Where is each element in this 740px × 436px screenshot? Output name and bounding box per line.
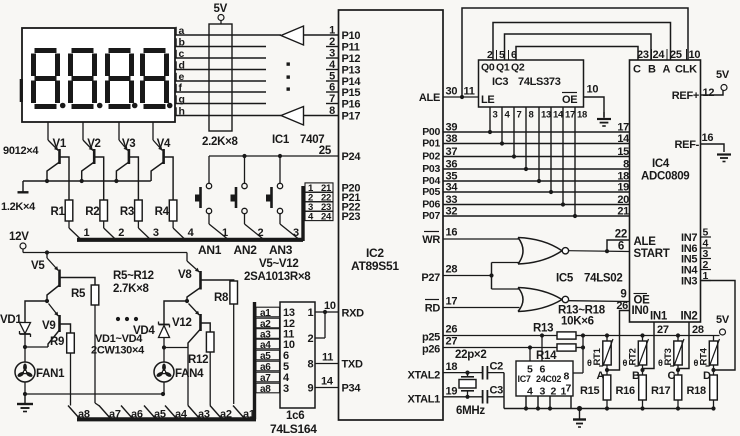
- svg-text:FAN4: FAN4: [175, 368, 204, 380]
- bus bar (thick) fan harness a1-a8: [77, 302, 256, 419]
- svg-text:a2: a2: [260, 319, 271, 330]
- svg-text:VD4: VD4: [133, 325, 155, 337]
- svg-text:XTAL2: XTAL2: [407, 370, 440, 382]
- resistor R18: [710, 370, 718, 409]
- crystal Y1 6MHz: [459, 373, 476, 397]
- svg-text:17: 17: [617, 122, 629, 134]
- svg-text:21: 21: [617, 206, 629, 218]
- svg-text:11: 11: [322, 352, 333, 364]
- svg-text:P16: P16: [342, 99, 361, 111]
- label R5~R12 2.7Kx8: [113, 270, 154, 295]
- label AN3: [269, 243, 293, 257]
- svg-text:2: 2: [329, 36, 335, 48]
- IC6 left pin numbers: [283, 307, 295, 395]
- label a7: [109, 409, 121, 421]
- resistor R5 (2.7K base): [60, 278, 100, 406]
- svg-text:P15: P15: [342, 87, 361, 99]
- svg-text:ALE: ALE: [419, 92, 440, 104]
- svg-text:TXD: TXD: [342, 359, 363, 371]
- IC2 left port labels: [342, 30, 365, 395]
- svg-text:C: C: [633, 64, 641, 76]
- svg-text:IC2: IC2: [366, 246, 384, 260]
- svg-text:6: 6: [329, 82, 335, 94]
- pin numbers 30 and 11: [446, 86, 475, 98]
- label R8: [214, 292, 229, 304]
- svg-text:74LS164: 74LS164: [270, 422, 317, 436]
- svg-text:12: 12: [703, 87, 715, 99]
- resistor R14 (10K pullup): [557, 344, 583, 351]
- label FAN1: [36, 368, 65, 380]
- svg-text:R5: R5: [71, 288, 86, 300]
- label IC1 7407: [272, 134, 324, 146]
- label R5: [71, 288, 86, 300]
- IC3 data pin drop wires with junction dots: [488, 107, 577, 218]
- pin number 27 (p26): [446, 336, 458, 348]
- ground (REF-): [717, 155, 731, 162]
- pin number 25 (P24): [319, 145, 332, 157]
- svg-text:a4: a4: [175, 409, 188, 421]
- microcontroller IC2 AT89S51 box: [339, 10, 444, 420]
- svg-text:REF+: REF+: [672, 90, 699, 102]
- svg-text:36: 36: [446, 159, 458, 171]
- svg-text:START: START: [634, 248, 670, 260]
- svg-text:2.2K×8: 2.2K×8: [202, 136, 239, 148]
- pin number 19: [446, 386, 458, 398]
- label V4: [157, 138, 171, 150]
- bus tap a1: [233, 406, 245, 419]
- svg-text:V5~V12: V5~V12: [259, 258, 298, 270]
- svg-text:17: 17: [446, 296, 458, 308]
- svg-text:P07: P07: [422, 210, 440, 222]
- svg-text:10: 10: [324, 300, 336, 312]
- label C2: [490, 361, 504, 373]
- svg-text:a1: a1: [260, 308, 271, 319]
- zener diode VD4 (2CW130): [159, 301, 188, 348]
- svg-text:θ: θ: [587, 358, 592, 368]
- svg-text:P24: P24: [342, 151, 362, 163]
- wire P24 line to buttons: [209, 154, 339, 158]
- svg-text:OE: OE: [562, 94, 577, 106]
- IC4 right pin stubs 5 4 3 2 1: [701, 227, 712, 283]
- junction dots on V1-V4 rail: [45, 179, 119, 183]
- label 9012x4: [3, 145, 39, 157]
- label V9: [42, 320, 55, 332]
- svg-text:2SA1013R×8: 2SA1013R×8: [244, 271, 311, 283]
- svg-text:34: 34: [446, 182, 459, 194]
- pushbutton AN3: [266, 156, 298, 239]
- bus wire number 4: [188, 227, 195, 239]
- svg-text:5V: 5V: [716, 69, 730, 81]
- svg-text:10: 10: [689, 49, 701, 61]
- wire IN3 to node D: [701, 281, 736, 371]
- pin number 9: [620, 289, 626, 301]
- IC4 REF+ label and wire to 5V: [672, 90, 723, 102]
- svg-text:39: 39: [446, 122, 458, 134]
- svg-text:B: B: [648, 64, 656, 76]
- svg-text:Q2: Q2: [511, 62, 525, 74]
- svg-text:IC1: IC1: [272, 134, 290, 146]
- connector table wires 1-4 to P20-P23: [305, 183, 333, 223]
- bus tap a3: [188, 406, 200, 419]
- svg-text:16: 16: [446, 227, 458, 239]
- power terminal 5V (top): [214, 3, 228, 24]
- svg-text:a4: a4: [260, 340, 271, 351]
- pin number 11 (TXD): [322, 352, 333, 364]
- wire R13/R14 junction to 5V rail and IC7 pin8: [581, 333, 585, 373]
- svg-text:1: 1: [329, 25, 335, 37]
- wire IC7 pin7 to ground rail: [570, 396, 572, 409]
- node V5 collector junction: [45, 299, 49, 303]
- pin number 12: [703, 87, 715, 99]
- resistor R12 (2.7K base): [201, 323, 215, 406]
- svg-text:2: 2: [551, 386, 557, 398]
- thermistor RT1 (10K NTC): [599, 336, 613, 371]
- svg-text:ALE: ALE: [634, 236, 657, 248]
- svg-text:P12: P12: [342, 53, 361, 65]
- svg-text:18: 18: [446, 361, 458, 373]
- wire fan return line: [23, 392, 165, 396]
- power terminal 12V: [9, 231, 29, 253]
- power terminal 5V (REF+): [716, 69, 730, 91]
- svg-text:AT89S51: AT89S51: [351, 259, 399, 273]
- resistor R13 (10K pullup): [557, 332, 583, 339]
- svg-text:P00: P00: [422, 126, 440, 138]
- svg-text:4: 4: [188, 227, 195, 239]
- transistor V1 (9012 PNP digit driver): [47, 122, 60, 181]
- pushbutton AN1: [195, 156, 227, 239]
- label a3: [198, 409, 210, 421]
- svg-text:C3: C3: [490, 385, 504, 397]
- svg-text:27: 27: [657, 324, 669, 336]
- svg-text:7: 7: [566, 383, 572, 395]
- button bus wire number 1: [222, 227, 228, 239]
- svg-text:R1: R1: [51, 206, 66, 218]
- bus wire number 3: [153, 227, 159, 239]
- wire IC7 pin6 to p25: [541, 336, 543, 362]
- label C3: [490, 385, 504, 397]
- svg-text:V5: V5: [31, 260, 45, 272]
- svg-text:19: 19: [617, 182, 629, 194]
- nor gate IC5b: [518, 288, 569, 312]
- label VD1: [0, 314, 22, 326]
- svg-text:RT1: RT1: [592, 347, 603, 365]
- label VD4: [133, 325, 155, 337]
- latch IC3 74LS373 box: [479, 60, 584, 107]
- shift register IC6 74LS164 box: [280, 302, 315, 408]
- svg-text:a6: a6: [131, 409, 143, 421]
- label 6MHz: [456, 405, 485, 417]
- wire Q2 (pin6) to ADC C (pin23): [516, 47, 638, 61]
- svg-text:33: 33: [446, 194, 458, 206]
- wire segment lines a-h from display to IC1/IC2: [175, 35, 339, 116]
- svg-text:FAN1: FAN1: [36, 368, 65, 380]
- thermistor RT3 (10K NTC): [670, 336, 684, 371]
- svg-text:V2: V2: [87, 138, 100, 150]
- eeprom IC7 24C02 box: [516, 361, 573, 396]
- transistor V2 (9012 PNP digit driver): [82, 122, 95, 181]
- pin number 17: [446, 296, 458, 308]
- bus tap a4: [165, 406, 177, 419]
- wire Q0 (pin2) to ADC A (pin25): [493, 23, 671, 61]
- resistor R4 (1.2K base): [164, 157, 185, 239]
- LED display DS1 (4-digit 7-segment): [21, 27, 176, 122]
- svg-text:RD: RD: [425, 303, 441, 315]
- capacitor C3 22p: [483, 390, 504, 404]
- ellipsis dots between fan cells: [116, 317, 138, 321]
- pin numbers 22 and 6: [615, 229, 627, 253]
- ground (IC3 OE): [597, 112, 611, 126]
- wire IC7 pin5 to p26: [529, 348, 531, 362]
- svg-text:WR: WR: [422, 234, 440, 246]
- svg-text:R18: R18: [687, 385, 706, 397]
- label V3: [122, 138, 135, 150]
- svg-text:P05: P05: [422, 186, 440, 198]
- resistor network RN1 2.2Kx8: [209, 24, 232, 131]
- label V2: [87, 138, 100, 150]
- label a4: [175, 409, 188, 421]
- wire Q1 (pin5) to ADC B (pin24): [505, 34, 652, 60]
- resistor R1 (1.2K base): [60, 157, 81, 239]
- svg-text:3: 3: [293, 227, 299, 239]
- wire ALE to ADC CLK (outer loop): [462, 8, 688, 97]
- svg-text:1: 1: [84, 227, 90, 239]
- transistor V8 (2SA1013): [187, 253, 201, 302]
- transistor V3 (9012 PNP digit driver): [116, 122, 128, 181]
- svg-text:7: 7: [517, 110, 522, 121]
- svg-text:16: 16: [702, 132, 714, 144]
- svg-text:R9: R9: [50, 336, 64, 348]
- label R2: [85, 206, 99, 218]
- label 22px2: [455, 349, 486, 361]
- adc IC4 ADC0809 box: [630, 60, 701, 322]
- wire IC7 pin8 to 5V: [573, 372, 583, 374]
- svg-text:IN1: IN1: [650, 311, 668, 323]
- svg-text:R13: R13: [533, 323, 553, 335]
- svg-text:1.2K×4: 1.2K×4: [1, 201, 36, 213]
- IC7 labels and pin numbers: [518, 364, 572, 398]
- svg-text:27: 27: [446, 336, 458, 348]
- IC3 top pin numbers 2 5 6: [487, 49, 517, 61]
- label R16: [616, 385, 635, 397]
- connector boxes a1-a8: [256, 307, 280, 395]
- svg-text:5V: 5V: [716, 314, 730, 326]
- svg-text:Q0: Q0: [481, 62, 495, 74]
- bus tap a7: [99, 406, 111, 419]
- svg-text:9: 9: [308, 383, 314, 395]
- svg-text:P11: P11: [342, 42, 360, 54]
- svg-text:2.7K×8: 2.7K×8: [113, 283, 150, 295]
- label IC6 74LS164: [270, 410, 317, 436]
- svg-text:22: 22: [615, 229, 627, 241]
- resistor R8 (2.7K base): [201, 280, 238, 404]
- node D: [703, 368, 716, 382]
- wire IC6 pin9 to P34: [308, 383, 339, 395]
- label VD1~VD4 2CW130x4: [91, 333, 145, 357]
- label R18: [687, 385, 706, 397]
- bus tap a6: [121, 406, 133, 419]
- label a5: [154, 409, 166, 421]
- svg-text:6: 6: [618, 241, 624, 253]
- nor gate IC5a: [518, 238, 569, 265]
- ground (fan return): [17, 394, 33, 412]
- bus tap a8: [68, 406, 80, 419]
- svg-text:2CW130×4: 2CW130×4: [91, 345, 145, 357]
- ADC side pin numbers 17 14 15 8 18 19 20 21: [617, 122, 630, 218]
- label R4: [155, 206, 170, 218]
- resistor R16: [639, 370, 647, 409]
- button bus wire number 3: [293, 227, 299, 239]
- label V12: [172, 317, 192, 329]
- IC4 REF- label and wire to ground: [675, 139, 724, 152]
- svg-text:LE: LE: [481, 94, 494, 106]
- svg-text:P23: P23: [342, 211, 361, 223]
- svg-text:20: 20: [617, 194, 629, 206]
- svg-text:24: 24: [653, 49, 666, 61]
- svg-text:12V: 12V: [9, 231, 29, 243]
- power rail 5V (thermistors / pullups): [583, 335, 720, 337]
- wire IC6 pin8 to TXD: [308, 359, 339, 371]
- svg-text:V9: V9: [42, 320, 55, 332]
- svg-text:1c6: 1c6: [286, 410, 304, 422]
- wire IN2 (pin28) to node C: [678, 322, 689, 369]
- svg-text:7: 7: [329, 93, 335, 105]
- theta symbol for RT4: [694, 358, 699, 368]
- thermistor RT4 (10K NTC): [706, 336, 720, 371]
- label IC5 74LS02: [556, 273, 622, 285]
- svg-text:3: 3: [540, 386, 546, 398]
- svg-text:P13: P13: [342, 65, 361, 77]
- junction dots p25/p26 at IC7 pins: [528, 333, 544, 349]
- svg-text:10K×6: 10K×6: [561, 316, 594, 328]
- svg-text:P17: P17: [342, 111, 361, 123]
- wire IC5a output to ADC START/ALE: [569, 240, 630, 253]
- wire C2/C3 common to ground rail: [503, 373, 505, 409]
- wire RD from IC2 to gate IC5b: [443, 307, 520, 309]
- svg-text:θ: θ: [623, 358, 628, 368]
- svg-text:IN0: IN0: [632, 305, 649, 317]
- svg-text:19: 19: [446, 386, 458, 398]
- svg-text:24C02: 24C02: [536, 374, 561, 384]
- svg-text:RT2: RT2: [628, 348, 639, 365]
- svg-text:17: 17: [565, 110, 575, 121]
- svg-text:R12: R12: [188, 354, 208, 366]
- label AN1: [198, 243, 222, 257]
- resistor R15: [603, 370, 611, 409]
- label R15: [580, 385, 599, 397]
- wire p26 line: [443, 347, 557, 349]
- svg-text:28: 28: [446, 264, 458, 276]
- svg-text:REF-: REF-: [675, 139, 700, 151]
- svg-text:3: 3: [283, 383, 289, 395]
- pin number 18: [446, 361, 458, 373]
- ground symbol (bottom rail): [573, 406, 586, 427]
- theta symbol for RT2: [623, 358, 628, 368]
- label R12: [188, 354, 208, 366]
- wire 12V rail: [23, 250, 187, 254]
- junction dots on 5V rail: [605, 333, 680, 337]
- pin number 26 (IN0): [616, 300, 628, 312]
- label V1: [53, 138, 67, 150]
- svg-text:A: A: [663, 64, 671, 76]
- pin number 26 (p25): [446, 324, 458, 336]
- pin number 14 (P34): [321, 376, 334, 388]
- svg-text:6MHz: 6MHz: [456, 405, 485, 417]
- svg-text:8: 8: [329, 105, 335, 117]
- wire XTAL1 line: [443, 395, 483, 399]
- svg-text:a7: a7: [260, 373, 271, 384]
- display segment pin labels a-h: [179, 25, 185, 118]
- label a6: [131, 409, 143, 421]
- node V8 collector junction: [185, 299, 189, 303]
- svg-text:P03: P03: [422, 163, 440, 175]
- svg-text:R16: R16: [616, 385, 635, 397]
- svg-text:3: 3: [329, 48, 335, 60]
- label a8: [78, 409, 90, 421]
- svg-text:V1: V1: [53, 138, 67, 150]
- pushbutton AN2: [231, 156, 263, 239]
- svg-text:32: 32: [446, 206, 458, 218]
- label V5: [31, 260, 45, 272]
- svg-text:28: 28: [692, 324, 704, 336]
- svg-text:R4: R4: [155, 206, 170, 218]
- svg-text:9: 9: [620, 289, 626, 301]
- svg-text:8: 8: [308, 359, 314, 371]
- label IC4 ADC0809: [641, 158, 689, 183]
- svg-text:P27: P27: [421, 272, 440, 284]
- svg-text:AN2: AN2: [234, 243, 258, 257]
- label R9: [50, 336, 64, 348]
- IC4 OE IN0 labels: [632, 294, 651, 318]
- transistor V5 (2SA1013): [47, 253, 60, 302]
- svg-text:R8: R8: [214, 292, 229, 304]
- svg-text:P34: P34: [342, 383, 362, 395]
- svg-text:P01: P01: [422, 138, 440, 150]
- svg-text:R14: R14: [536, 350, 557, 362]
- svg-text:11: 11: [464, 86, 475, 98]
- svg-text:22p×2: 22p×2: [455, 349, 486, 361]
- svg-text:25: 25: [319, 145, 332, 157]
- svg-text:8: 8: [529, 110, 534, 121]
- svg-text:5V: 5V: [214, 3, 228, 15]
- transistor V12 (2SA1013): [164, 304, 201, 348]
- svg-text:14: 14: [321, 376, 334, 388]
- svg-text:RT3: RT3: [663, 348, 674, 365]
- svg-text:a7: a7: [109, 409, 121, 421]
- svg-text:XTAL1: XTAL1: [407, 394, 440, 406]
- wires IC7 pins 4 3 2 to ground rail: [524, 396, 552, 411]
- ellipsis dots between buffers: [287, 62, 290, 90]
- svg-text:15: 15: [617, 146, 629, 158]
- IC6 right pins 1,2 tied to RXD: [308, 307, 339, 345]
- svg-text:p25: p25: [422, 332, 440, 344]
- bus wire number 1: [84, 227, 90, 239]
- svg-text:IN2: IN2: [681, 311, 698, 323]
- pin number 16 (REF-): [702, 132, 714, 144]
- svg-text:IC7: IC7: [518, 374, 531, 384]
- svg-text:38: 38: [446, 133, 458, 145]
- IC4 bottom labels IN1 IN2: [650, 311, 698, 323]
- label RT2 (vertical): [628, 348, 639, 365]
- svg-text:2: 2: [118, 227, 124, 239]
- svg-text:IC5: IC5: [556, 273, 574, 285]
- label 1.2Kx4: [1, 201, 36, 213]
- bus tap a2: [210, 406, 222, 419]
- wire IN0 to node A: [607, 311, 630, 371]
- svg-text:4: 4: [505, 110, 511, 121]
- svg-text:8: 8: [564, 371, 570, 383]
- svg-text:P02: P02: [422, 151, 440, 163]
- label V5~V12 2SA1013Rx8: [244, 258, 311, 283]
